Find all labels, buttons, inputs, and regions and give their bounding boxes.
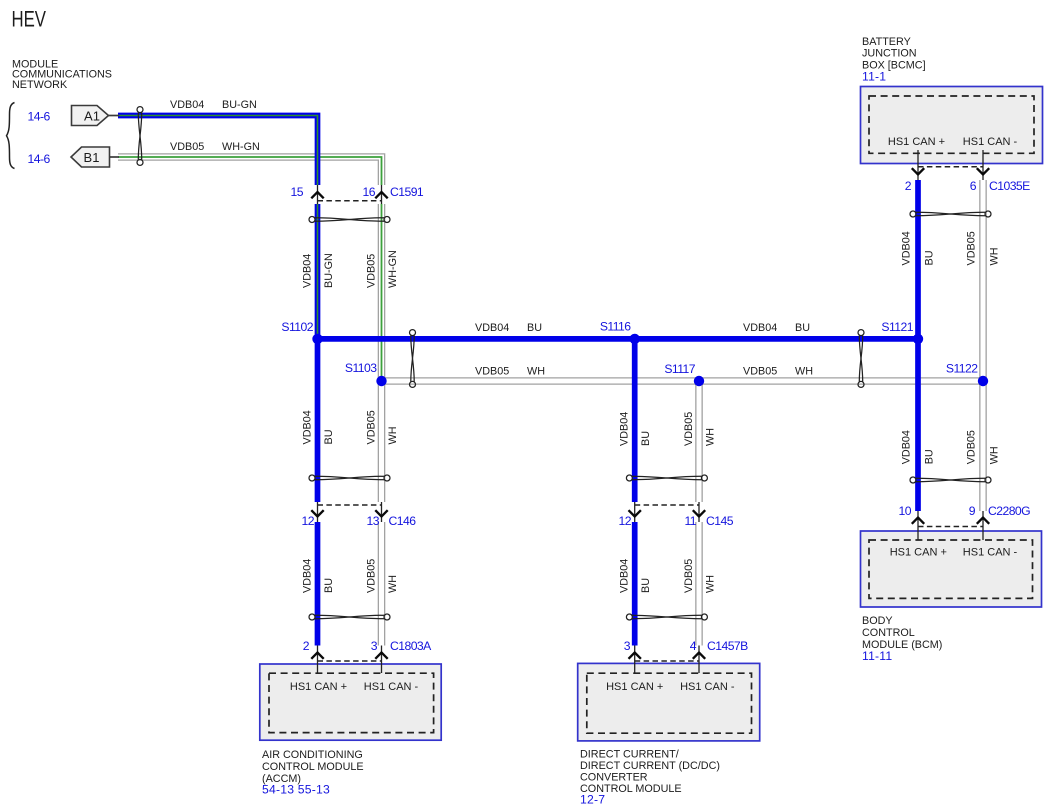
svg-text:DIRECT CURRENT/: DIRECT CURRENT/ — [580, 749, 679, 761]
svg-text:C2280G: C2280G — [988, 504, 1030, 518]
off-page connector A1 — [72, 106, 120, 126]
connector C1457B pin 4 lead — [698, 646, 700, 674]
battery junction box BJB outline — [861, 87, 1043, 164]
connector C1457B pin 3 lead — [634, 646, 636, 674]
wire VDB05 WH bus S1103 to S1122 — [382, 377, 984, 385]
connector C145 pin 11 arrow — [693, 510, 705, 516]
svg-text:3: 3 — [624, 639, 631, 653]
connector C146 pin 12 lead — [317, 502, 319, 522]
svg-text:2: 2 — [905, 179, 912, 193]
twisted pair symbol above C1457B — [626, 614, 707, 620]
twisted pair symbol above C146 — [309, 475, 390, 481]
connector C1457B dashed link — [635, 660, 699, 662]
svg-text:S1103: S1103 — [345, 361, 377, 375]
wire VDB04 BU from C145 to DC/DC pin 3 — [632, 522, 638, 646]
svg-text:VDB05: VDB05 — [475, 366, 509, 378]
svg-text:BU: BU — [323, 430, 335, 445]
svg-text:VDB05: VDB05 — [683, 559, 695, 593]
svg-text:BU: BU — [640, 431, 652, 446]
svg-text:VDB05: VDB05 — [365, 559, 377, 593]
splice S1102 — [312, 334, 322, 344]
svg-text:BU: BU — [323, 578, 335, 593]
svg-text:6: 6 — [970, 179, 977, 193]
connector C1591 pin 15 arrow — [311, 192, 323, 198]
connector C145 pin 12 arrow — [629, 510, 641, 516]
svg-text:CONTROL MODULE: CONTROL MODULE — [262, 761, 364, 773]
connector C146 pin 12 arrow — [311, 510, 323, 516]
svg-text:S1102: S1102 — [281, 320, 313, 334]
caption body control module — [862, 615, 942, 651]
header MODULE COMMUNICATIONS NETWORK — [12, 58, 112, 91]
svg-text:C1591: C1591 — [390, 185, 424, 199]
svg-text:BODY: BODY — [862, 615, 893, 627]
svg-text:BU: BU — [923, 449, 935, 464]
svg-text:14-6: 14-6 — [28, 152, 51, 166]
connector C1803A pin 2 arrow — [311, 653, 323, 659]
svg-text:VDB05: VDB05 — [683, 412, 695, 446]
svg-text:CONVERTER: CONVERTER — [580, 772, 648, 784]
connector C146 pin 13 lead — [381, 502, 383, 522]
svg-text:HS1 CAN +: HS1 CAN + — [890, 547, 947, 559]
wire VDB05 WH from C145 to DC/DC pin 4 — [695, 522, 703, 646]
twisted pair symbol below C1035E — [910, 211, 991, 217]
svg-text:12-7: 12-7 — [580, 793, 605, 807]
wire VDB04 BU-GN/BU from C1591 through S1102 to C146 pin 12 — [315, 204, 321, 502]
svg-text:WH: WH — [795, 366, 813, 378]
svg-text:C1803A: C1803A — [390, 639, 432, 653]
svg-text:HS1 CAN -: HS1 CAN - — [963, 136, 1018, 148]
svg-text:HS1 CAN +: HS1 CAN + — [888, 136, 945, 148]
svg-text:JUNCTION: JUNCTION — [862, 48, 917, 60]
wire VDB05 WH-GN from B1 to C1591 pin 16 — [118, 157, 382, 185]
svg-text:VDB05: VDB05 — [965, 430, 977, 464]
connector C2280G dashed link — [918, 526, 983, 528]
connector C1457B pin 3 arrow — [629, 653, 641, 659]
twisted pair symbol above C2280G — [910, 477, 991, 483]
svg-text:VDB04: VDB04 — [619, 412, 631, 446]
svg-text:C1457B: C1457B — [707, 639, 748, 653]
connector C1803A pin 3 arrow — [375, 653, 387, 659]
svg-text:HS1 CAN +: HS1 CAN + — [290, 681, 347, 693]
svg-text:WH: WH — [988, 248, 1000, 266]
connector C1035E pin 2 lead — [917, 150, 919, 180]
svg-text:VDB04: VDB04 — [475, 322, 509, 334]
svg-text:WH: WH — [704, 428, 716, 446]
svg-text:VDB05: VDB05 — [365, 410, 377, 444]
svg-text:4: 4 — [690, 639, 697, 653]
svg-text:HS1 CAN -: HS1 CAN - — [364, 681, 419, 693]
connector C1591 pin 16 arrow — [375, 192, 387, 198]
caption A/C control module — [262, 749, 364, 785]
svg-text:16: 16 — [363, 185, 376, 199]
svg-text:HS1 CAN -: HS1 CAN - — [680, 681, 735, 693]
twisted pair symbol above C1803A — [309, 614, 390, 620]
svg-text:12: 12 — [619, 514, 632, 528]
svg-text:WH-GN: WH-GN — [387, 250, 399, 288]
connector C145 pin 11 lead — [698, 502, 700, 522]
twisted pair symbol on bus right — [858, 330, 864, 388]
svg-text:VDB05: VDB05 — [170, 141, 204, 153]
connector C146 pin 13 arrow — [375, 510, 387, 516]
caption DC/DC converter control module — [580, 749, 720, 796]
svg-text:B1: B1 — [84, 150, 100, 165]
svg-text:S1122: S1122 — [946, 362, 978, 376]
wire VDB04 BU bus S1102 to S1121 — [318, 336, 919, 342]
svg-text:11-1: 11-1 — [862, 70, 886, 84]
connector C146 dashed link — [318, 504, 382, 506]
wire VDB04 BU from C146 to ACCM pin 2 — [315, 522, 321, 646]
svg-text:A1: A1 — [84, 109, 100, 124]
svg-text:15: 15 — [291, 185, 304, 199]
svg-text:VDB04: VDB04 — [619, 559, 631, 593]
connector C1591 dashed link — [318, 200, 382, 202]
twisted pair symbol on bus left — [410, 330, 416, 388]
svg-text:BU-GN: BU-GN — [222, 99, 257, 111]
svg-text:VDB04: VDB04 — [743, 322, 777, 334]
connector C1591 pin 16 lead — [381, 185, 383, 204]
wire VDB05 WH from S1117 to C145 pin 11 — [695, 381, 703, 502]
twisted pair symbol near A1/B1 — [137, 107, 143, 166]
twisted pair symbol above C145 — [626, 475, 707, 481]
svg-text:10: 10 — [899, 504, 912, 518]
connector C145 pin 12 lead — [634, 502, 636, 522]
A/C control module ACCM outline — [260, 664, 441, 740]
svg-text:C1035E: C1035E — [989, 179, 1030, 193]
connector C2280G pin 9 arrow — [977, 518, 989, 524]
svg-text:11: 11 — [684, 514, 696, 528]
splice S1117 — [694, 376, 704, 386]
svg-text:C145: C145 — [706, 514, 734, 528]
svg-text:BU: BU — [640, 578, 652, 593]
connector C2280G pin 10 arrow — [912, 518, 924, 524]
svg-text:HS1 CAN -: HS1 CAN - — [963, 547, 1018, 559]
wire VDB05 WH from BJB pin 6 through S1122 to BCM pin 9 — [979, 180, 987, 511]
svg-text:AIR CONDITIONING: AIR CONDITIONING — [262, 749, 363, 761]
connector C1591 pin 15 lead — [317, 185, 319, 204]
splice S1121 — [913, 334, 923, 344]
svg-text:VDB04: VDB04 — [301, 410, 313, 444]
twisted pair symbol below C1591 — [309, 217, 390, 223]
svg-text:BU: BU — [527, 322, 542, 334]
connector C1457B pin 4 arrow — [693, 653, 705, 659]
svg-text:VDB05: VDB05 — [965, 231, 977, 265]
connector C2280G pin 10 lead — [917, 511, 919, 540]
caption battery junction box — [862, 36, 926, 72]
wire VDB04 BU from BJB pin 2 through S1121 to BCM pin 10 — [915, 180, 921, 511]
splice S1116 — [630, 334, 640, 344]
svg-text:CONTROL: CONTROL — [862, 627, 915, 639]
connector C1803A dashed link — [318, 660, 382, 662]
connector C1035E pin 2 arrow — [912, 168, 924, 174]
wire VDB05 WH from C146 to ACCM pin 3 — [378, 522, 386, 646]
svg-text:9: 9 — [969, 504, 976, 518]
svg-text:2: 2 — [303, 639, 310, 653]
connector C1035E pin 6 lead — [982, 150, 984, 180]
svg-text:VDB04: VDB04 — [301, 559, 313, 593]
svg-text:BU: BU — [923, 251, 935, 266]
svg-text:WH: WH — [387, 575, 399, 593]
connector C1803A pin 2 lead — [317, 646, 319, 674]
svg-text:C146: C146 — [389, 514, 417, 528]
svg-text:12: 12 — [302, 514, 315, 528]
connector C1803A pin 3 lead — [381, 646, 383, 674]
svg-text:WH: WH — [527, 366, 545, 378]
svg-text:VDB04: VDB04 — [901, 430, 913, 464]
svg-text:VDB04: VDB04 — [301, 254, 313, 288]
svg-text:HEV: HEV — [12, 7, 47, 32]
svg-text:14-6: 14-6 — [28, 110, 51, 124]
connector C145 dashed link — [635, 504, 699, 506]
wire VDB04 BU from S1116 to C145 pin 12 — [632, 339, 638, 502]
svg-text:S1116: S1116 — [600, 320, 631, 334]
svg-text:DIRECT CURRENT (DC/DC): DIRECT CURRENT (DC/DC) — [580, 760, 720, 772]
svg-text:54-13 55-13: 54-13 55-13 — [262, 783, 330, 797]
svg-text:VDB05: VDB05 — [743, 366, 777, 378]
svg-text:BU: BU — [795, 322, 810, 334]
svg-text:WH: WH — [988, 446, 1000, 464]
splice S1103 — [376, 376, 386, 386]
body control module BCM outline — [861, 531, 1042, 607]
svg-text:VDB05: VDB05 — [365, 254, 377, 288]
svg-text:BATTERY: BATTERY — [862, 36, 911, 48]
svg-text:S1121: S1121 — [881, 320, 913, 334]
svg-text:HS1 CAN +: HS1 CAN + — [606, 681, 663, 693]
connector C2280G pin 9 lead — [982, 511, 984, 540]
svg-text:WH: WH — [387, 427, 399, 445]
wire VDB04 BU-GN from A1 to C1591 pin 15 — [118, 116, 318, 186]
connector C1035E dashed link — [918, 166, 983, 168]
wire VDB05 WH from S1103 to C146 pin 13 — [378, 381, 386, 502]
off-page connector B1 — [71, 147, 119, 167]
svg-text:WH-GN: WH-GN — [222, 141, 260, 153]
splice S1122 — [978, 376, 988, 386]
svg-text:BU-GN: BU-GN — [323, 253, 335, 288]
svg-text:3: 3 — [371, 639, 378, 653]
svg-text:NETWORK: NETWORK — [12, 79, 68, 91]
svg-text:VDB04: VDB04 — [901, 231, 913, 265]
svg-text:13: 13 — [367, 514, 380, 528]
svg-text:S1117: S1117 — [664, 362, 695, 376]
svg-text:11-11: 11-11 — [862, 649, 892, 663]
DC/DC converter control module outline — [578, 663, 760, 741]
svg-text:WH: WH — [704, 575, 716, 593]
connector C1035E pin 6 arrow — [977, 168, 989, 174]
brace for off-page references — [7, 103, 15, 169]
wire VDB05 WH-GN from C1591 to splice S1103 — [378, 204, 386, 381]
svg-text:VDB04: VDB04 — [170, 99, 204, 111]
